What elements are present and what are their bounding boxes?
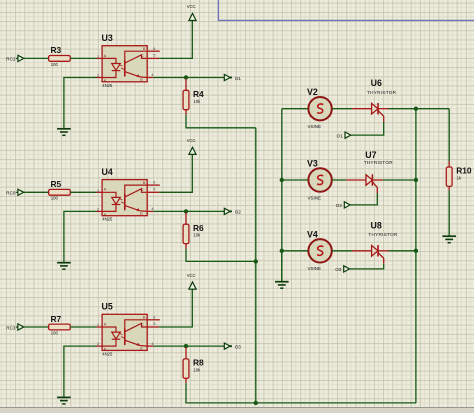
svg-text:100: 100 [51, 62, 59, 67]
svg-text:1: 1 [97, 188, 99, 192]
svg-text:RC2: RC2 [6, 57, 16, 62]
svg-text:5: 5 [153, 187, 155, 191]
svg-text:A: A [104, 322, 107, 326]
svg-text:1: 1 [97, 55, 99, 59]
resistor R7 value 100 [49, 314, 71, 336]
wire pin 4 to terminal O1 [153, 77, 224, 79]
svg-text:V3: V3 [307, 159, 318, 169]
gate terminal O1 [337, 132, 351, 138]
U5 pin 1 stub [97, 326, 103, 328]
wire gate to terminal O3 [350, 264, 384, 269]
resistor R5 value 100 [49, 179, 71, 201]
svg-text:6: 6 [153, 47, 155, 51]
wire RC0 to R5 [24, 191, 49, 193]
U5 pin 5 stub (C) [147, 326, 159, 328]
R4 bottom stub [185, 110, 187, 115]
thyristor U6 [352, 78, 397, 122]
svg-text:O1: O1 [235, 76, 242, 81]
wire U6 cathode to right rail [389, 108, 450, 110]
svg-text:E: E [140, 78, 143, 82]
svg-text:R5: R5 [51, 179, 62, 189]
svg-text:B: B [143, 316, 146, 320]
svg-text:VSINE: VSINE [308, 195, 322, 200]
wire RC2 to R3 [24, 57, 49, 59]
svg-text:5: 5 [153, 53, 155, 57]
svg-text:O2: O2 [336, 203, 343, 208]
wire pin 5 to VCC [159, 289, 192, 327]
gate terminal O2 [336, 202, 350, 208]
svg-text:10k: 10k [193, 99, 201, 104]
U3 pin 2 stub [97, 77, 103, 79]
U3 pin 6 stub (B, unconnected) [147, 50, 160, 52]
U5 pin 6 stub (B, unconnected) [147, 319, 160, 321]
wire pin 5 to VCC [159, 154, 192, 192]
R8 bottom stub [185, 378, 187, 383]
svg-text:6: 6 [153, 315, 155, 319]
wire RC3 to R7 [24, 326, 49, 328]
resistor R8 value 10k [183, 358, 204, 379]
U4 pin 4 stub (E) [147, 210, 153, 212]
svg-text:2: 2 [97, 74, 99, 78]
junction right rail U7 [414, 178, 418, 182]
ground [57, 263, 71, 270]
svg-text:6: 6 [153, 181, 155, 185]
wire R10 to ground [448, 190, 450, 236]
left vertical rail wire (sources to ground) [281, 109, 283, 282]
svg-text:10k: 10k [193, 367, 201, 372]
wire rail to V2 [282, 108, 309, 110]
svg-text:VCC: VCC [187, 273, 196, 278]
output terminal O2 [224, 208, 241, 214]
wire V3 to U7 anode [332, 179, 347, 181]
wire R7 to U5 pin 1 [70, 326, 96, 328]
power VCC [187, 4, 196, 20]
svg-text:U3: U3 [102, 33, 113, 43]
svg-text:U6: U6 [371, 78, 382, 88]
window bottom strip [0, 408, 474, 413]
R10 bottom stub [448, 186, 450, 190]
junction bottom rail / mid rail [254, 401, 258, 405]
svg-text:O2: O2 [235, 210, 242, 215]
svg-text:RC3: RC3 [6, 325, 16, 330]
U4 pin 1 stub [97, 191, 103, 193]
resistor R6 value 10k [183, 223, 204, 244]
ground (R10) [442, 236, 456, 243]
svg-text:THYRISTOR: THYRISTOR [364, 160, 394, 165]
R6 top stub [185, 212, 187, 224]
output terminal O1 [224, 74, 241, 80]
U3 pin 1 stub [97, 57, 103, 59]
ground (sources rail) [281, 251, 283, 281]
svg-text:4: 4 [151, 207, 153, 211]
svg-text:V4: V4 [307, 229, 318, 239]
svg-text:U4: U4 [102, 167, 113, 177]
R8 top stub [185, 347, 187, 359]
svg-text:R6: R6 [193, 223, 204, 233]
U3 pin 4 stub (E) [147, 77, 153, 79]
svg-text:R4: R4 [193, 89, 204, 99]
svg-text:U7: U7 [365, 150, 376, 160]
junction left rail V4 [280, 249, 284, 253]
sine source V4 VSINE [307, 229, 332, 271]
input terminal RC3 [6, 324, 23, 330]
optocoupler U5 4N25 body [102, 314, 147, 351]
svg-text:R7: R7 [51, 314, 62, 324]
U3 pin 5 stub (C) [147, 57, 159, 59]
svg-text:E: E [140, 347, 143, 351]
svg-text:V2: V2 [307, 87, 318, 97]
wire V4 to U8 anode [332, 250, 352, 252]
svg-text:O3: O3 [335, 267, 342, 272]
svg-text:100: 100 [51, 330, 59, 335]
U4 pin 5 stub (C) [147, 191, 159, 193]
svg-text:R8: R8 [193, 358, 204, 368]
svg-text:C: C [141, 54, 144, 58]
junction on mid rail [254, 259, 258, 263]
thyristor U7 [346, 150, 393, 193]
svg-text:5: 5 [153, 322, 155, 326]
U4 pin 6 stub (B, unconnected) [147, 184, 160, 186]
ground [57, 397, 71, 404]
svg-text:RC0: RC0 [6, 191, 16, 196]
wire pin 2 to ground [64, 211, 97, 262]
right vertical rail wire (thyristor cathodes) [415, 109, 417, 403]
node O3 junction [184, 344, 188, 348]
optocoupler U4 4N25 body [102, 180, 147, 217]
wire R3 to U3 pin 1 [70, 57, 96, 59]
node O2 junction [184, 209, 188, 213]
junction left rail V3 [280, 178, 284, 182]
svg-text:VSINE: VSINE [308, 124, 322, 129]
svg-text:B: B [143, 181, 146, 185]
svg-text:4N25: 4N25 [102, 217, 113, 222]
svg-text:THYRISTOR: THYRISTOR [368, 232, 398, 237]
R10 top stub [448, 161, 450, 167]
wire pin 4 to terminal O2 [153, 210, 224, 212]
svg-text:E: E [140, 212, 143, 216]
svg-text:O3: O3 [235, 344, 242, 349]
wire R8 to bottom rail [186, 383, 416, 403]
svg-text:1: 1 [97, 323, 99, 327]
wire R6 to mid rail [186, 249, 256, 262]
svg-text:R3: R3 [51, 45, 62, 55]
resistor R10 value 1k [446, 166, 472, 187]
gate terminal O3 [335, 266, 349, 272]
svg-text:THYRISTOR: THYRISTOR [367, 90, 397, 95]
resistor R3 value 100 [49, 45, 71, 67]
node O1 junction [184, 75, 188, 79]
input terminal RC0 [6, 189, 23, 195]
mid vertical rail wire [255, 128, 257, 403]
svg-text:A: A [104, 54, 107, 58]
sine source V2 VSINE [307, 87, 332, 129]
wire R5 to U4 pin 1 [70, 191, 96, 193]
svg-text:B: B [143, 47, 146, 51]
svg-text:C: C [141, 188, 144, 192]
wire pin 4 to terminal O3 [153, 345, 224, 347]
wire U8 cathode to right rail [389, 250, 416, 252]
optocoupler U3 4N25 body [102, 46, 147, 83]
junction right rail U8 [414, 249, 418, 253]
svg-text:U5: U5 [102, 302, 113, 312]
thyristor U8 [352, 220, 398, 263]
wire pin 2 to ground [64, 346, 97, 397]
R4 top stub [185, 79, 187, 91]
wire R4 to mid rail [186, 115, 256, 128]
wire rail to V4 [282, 250, 309, 252]
sheet border (blue sub-circuit outline) [218, 0, 474, 20]
U4 pin 2 stub [97, 210, 103, 212]
svg-text:R10: R10 [456, 166, 472, 176]
U5 pin 4 stub (E) [147, 345, 153, 347]
resistor R4 value 10k [183, 89, 204, 110]
svg-text:2: 2 [97, 342, 99, 346]
svg-text:A: A [104, 188, 107, 192]
svg-text:VSINE: VSINE [308, 266, 322, 271]
wire U7 cathode to right rail [383, 179, 416, 181]
wire V2 to U6 anode [332, 108, 352, 110]
wire gate to terminal O2 [350, 193, 377, 205]
wire right rail to R10 [448, 109, 450, 161]
junction right rail U6 [414, 107, 418, 111]
svg-text:2: 2 [97, 208, 99, 212]
svg-text:U8: U8 [371, 220, 382, 230]
svg-text:100: 100 [51, 196, 59, 201]
svg-text:10k: 10k [193, 233, 201, 238]
R6 bottom stub [185, 244, 187, 249]
svg-text:C: C [141, 323, 144, 327]
output terminal O3 [224, 343, 241, 349]
input terminal RC2 [6, 55, 23, 61]
svg-text:4: 4 [151, 342, 153, 346]
svg-text:O1: O1 [337, 133, 344, 138]
svg-text:VCC: VCC [187, 138, 196, 143]
wire pin 5 to VCC [159, 21, 192, 59]
svg-text:4N25: 4N25 [102, 351, 113, 356]
U5 pin 2 stub [97, 345, 103, 347]
svg-text:4N25: 4N25 [102, 83, 113, 88]
wire pin 2 to ground [64, 78, 97, 129]
power VCC [187, 138, 196, 154]
ground [57, 129, 71, 136]
svg-text:VCC: VCC [187, 4, 196, 9]
sine source V3 VSINE [307, 159, 332, 201]
power VCC [187, 273, 196, 289]
wire gate to terminal O1 [351, 122, 384, 135]
svg-text:4: 4 [151, 73, 153, 77]
wire rail to V3 [282, 179, 309, 181]
